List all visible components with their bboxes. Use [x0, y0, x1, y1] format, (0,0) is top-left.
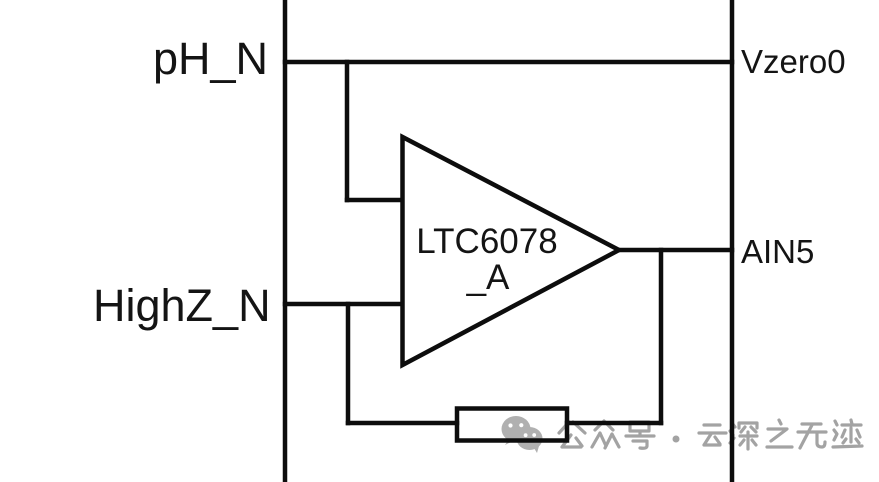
云: [699, 425, 726, 445]
svg-text:AIN5: AIN5: [741, 233, 814, 270]
迹: [833, 420, 862, 447]
svg-text:pH_N: pH_N: [153, 33, 268, 84]
watermark logo: [502, 416, 543, 453]
svg-text:LTC6078: LTC6078: [416, 222, 557, 261]
无: [798, 424, 826, 448]
resistor R (feedback): [457, 409, 567, 441]
schematic strokes: [285, 0, 732, 482]
之: [767, 420, 792, 447]
号: [626, 422, 654, 448]
wire: drop from pH_N net to op-amp + input: [345, 62, 350, 200]
wire: op-amp output to AIN5: [619, 248, 732, 253]
wire: op-amp + input stub: [347, 198, 404, 203]
wire: right bus (vertical): [730, 0, 735, 482]
wire: pH_N / Vzero0 net (horizontal): [285, 60, 732, 65]
wire: feedback bottom right segment: [567, 421, 661, 426]
众: [592, 421, 619, 448]
watermark text 公众号 · 云深之无迹: [559, 420, 862, 449]
wire: feedback right vertical to output: [659, 250, 664, 423]
深: [730, 423, 757, 449]
svg-text:Vzero0: Vzero0: [741, 43, 846, 80]
svg-text:_A: _A: [466, 258, 510, 297]
wire: HighZ_N net to op-amp - input: [285, 302, 404, 307]
wire: feedback left vertical: [346, 304, 351, 423]
op-amp U1 LTC6078_A (triangle body): [403, 137, 620, 365]
wire: left bus (vertical): [283, 0, 288, 482]
op-amp value label LTC6078 _A: [416, 222, 557, 297]
·: [673, 436, 680, 443]
公: [559, 422, 585, 447]
svg-text:HighZ_N: HighZ_N: [93, 280, 271, 331]
wire: feedback bottom left segment: [348, 421, 457, 426]
